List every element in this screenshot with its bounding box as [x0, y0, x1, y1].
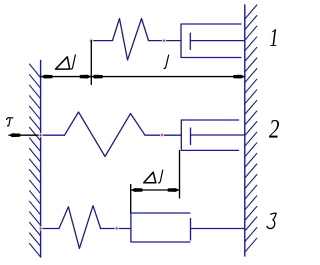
wire row3 left segment: [41, 228, 59, 230]
left wall: [40, 60, 42, 257]
spring 1: [113, 19, 149, 61]
damper 3 piston: [190, 219, 192, 241]
tau arrow line: [9, 134, 41, 136]
label tau: [7, 118, 13, 126]
dimension line top: [41, 76, 245, 78]
spring 2: [65, 112, 146, 157]
damper 2 cylinder: [181, 120, 238, 150]
node spring1-damper1 junction: [162, 39, 166, 43]
wire row1 right segment: [149, 40, 182, 42]
arrow l-left: [91, 75, 103, 79]
node row2 at wall: [39, 133, 43, 137]
extension line top: [90, 41, 92, 85]
extension line mid-left: [130, 185, 132, 214]
damper 3 cylinder box: [131, 213, 190, 242]
damper 2 rod to wall: [191, 134, 245, 136]
label 2: [269, 120, 279, 138]
label delta-l middle: triangle: [144, 172, 156, 183]
wire row2 right segment: [145, 134, 181, 136]
wire row1 left segment: [91, 40, 112, 42]
damper 1 piston: [189, 33, 191, 49]
dimension line middle: [131, 189, 180, 191]
arrow l-right: [233, 75, 245, 79]
label delta-l top: letter l: [71, 55, 76, 69]
spring 3: [59, 206, 101, 249]
left wall hatching: [30, 64, 41, 257]
arrow mid-right: [168, 188, 180, 192]
label l (length): [164, 55, 169, 68]
arrow dl-right: [80, 75, 92, 79]
label delta-l top: triangle: [56, 57, 70, 69]
label delta-l middle: letter l: [159, 170, 163, 183]
node row1 free end: [89, 39, 93, 43]
wire row2 left segment: [41, 134, 65, 136]
damper 1 cylinder: [181, 24, 241, 58]
extension line mid-right: [179, 151, 181, 199]
damper 3 rod to wall: [191, 228, 245, 230]
node spring3-damper3 junction: [115, 226, 119, 230]
tau arrowhead: [9, 133, 20, 137]
damper 1 rod to wall: [190, 40, 245, 42]
arrow mid-left: [131, 188, 143, 192]
right wall: [244, 5, 246, 256]
wire row3 right segment: [101, 228, 131, 230]
label 1: [270, 29, 277, 46]
node row3 at wall: [39, 226, 43, 230]
node spring2-damper2 junction: [160, 133, 164, 137]
right wall hatching: [245, 5, 257, 252]
label 3: [267, 213, 276, 228]
damper 2 piston: [190, 128, 192, 145]
arrow dl-left: [41, 75, 53, 79]
